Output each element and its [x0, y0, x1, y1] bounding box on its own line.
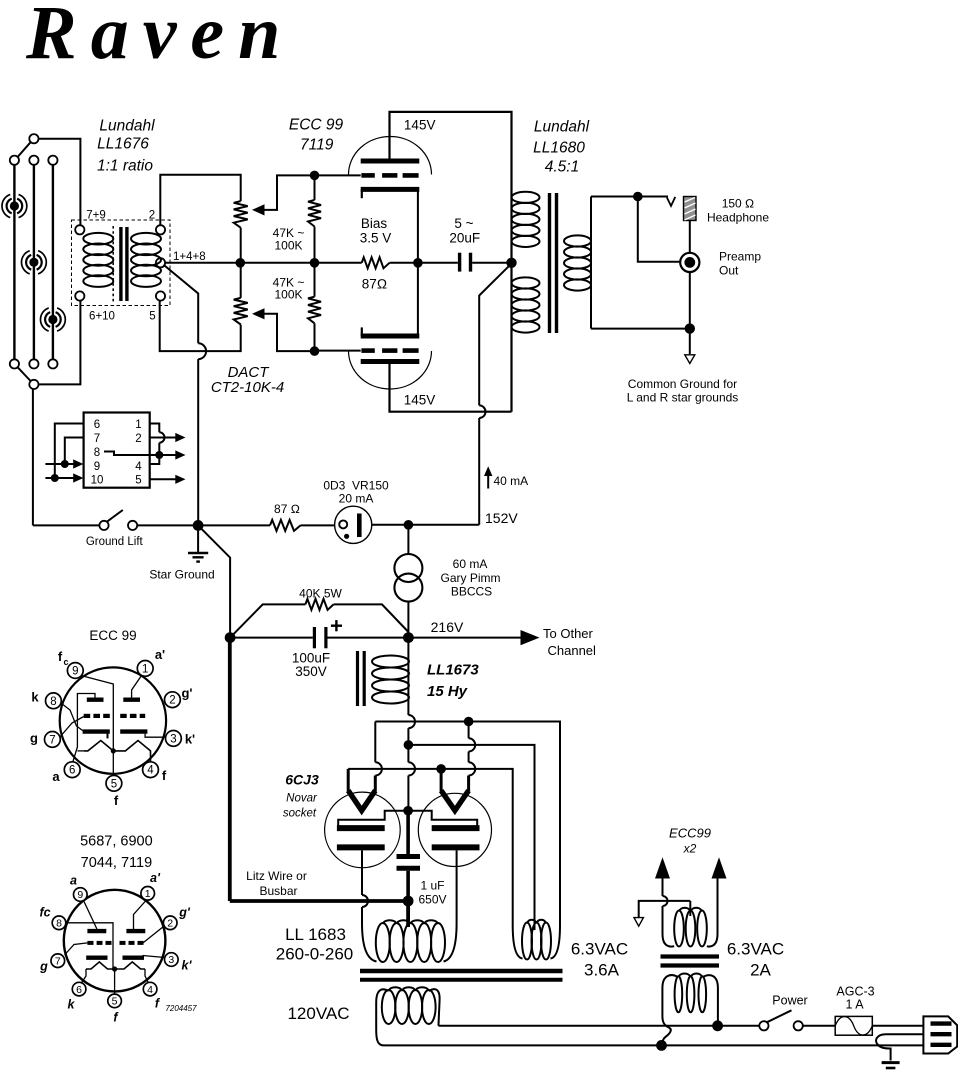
svg-text:Channel: Channel — [548, 643, 597, 658]
svg-text:Power: Power — [772, 994, 807, 1008]
svg-text:152V: 152V — [485, 510, 518, 526]
svg-text:1: 1 — [135, 419, 141, 431]
svg-text:120VAC: 120VAC — [287, 1004, 349, 1023]
svg-text:350V: 350V — [295, 664, 327, 679]
svg-text:8: 8 — [94, 447, 100, 459]
svg-text:2: 2 — [135, 433, 141, 445]
svg-text:6.3VAC: 6.3VAC — [727, 940, 784, 959]
svg-text:k: k — [68, 998, 76, 1012]
svg-text:f: f — [58, 649, 63, 664]
svg-text:60 mA: 60 mA — [453, 557, 488, 571]
svg-text:6+10: 6+10 — [89, 311, 115, 323]
svg-text:CT2-10K-4: CT2-10K-4 — [211, 379, 284, 396]
svg-text:20 mA: 20 mA — [339, 492, 374, 506]
svg-text:f: f — [162, 768, 167, 783]
svg-text:1:1 ratio: 1:1 ratio — [97, 158, 153, 175]
svg-text:5 ~: 5 ~ — [454, 216, 473, 231]
svg-text:0D3 VR150: 0D3 VR150 — [323, 479, 389, 493]
svg-text:7204457: 7204457 — [165, 1004, 197, 1013]
svg-text:BBCCS: BBCCS — [451, 585, 492, 599]
svg-text:Litz Wire or: Litz Wire or — [246, 869, 307, 883]
svg-text:LL1673: LL1673 — [427, 662, 479, 679]
svg-text:3.6A: 3.6A — [584, 961, 620, 980]
svg-text:1 uF: 1 uF — [421, 879, 445, 893]
svg-text:9: 9 — [94, 461, 100, 473]
svg-text:a: a — [70, 874, 77, 888]
svg-text:145V: 145V — [404, 118, 436, 133]
svg-text:40 mA: 40 mA — [494, 474, 529, 488]
svg-text:g': g' — [181, 686, 192, 701]
svg-text:4: 4 — [147, 984, 153, 996]
svg-text:7: 7 — [55, 955, 61, 967]
svg-text:a': a' — [150, 871, 161, 885]
svg-text:ECC 99: ECC 99 — [89, 628, 136, 643]
svg-text:10: 10 — [91, 475, 104, 487]
svg-text:k: k — [31, 690, 39, 705]
svg-text:2: 2 — [167, 918, 173, 930]
svg-text:Lundahl: Lundahl — [534, 119, 590, 136]
svg-text:4: 4 — [135, 461, 142, 473]
svg-text:a: a — [52, 769, 60, 784]
svg-text:k': k' — [185, 732, 195, 747]
svg-text:5: 5 — [135, 475, 141, 487]
svg-text:150 Ω: 150 Ω — [722, 197, 755, 211]
svg-text:k': k' — [182, 959, 193, 973]
svg-text:g: g — [30, 731, 38, 746]
svg-text:145V: 145V — [404, 393, 436, 408]
svg-text:9: 9 — [72, 666, 78, 678]
svg-text:Common Ground for: Common Ground for — [628, 377, 737, 391]
svg-text:87 Ω: 87 Ω — [274, 502, 300, 516]
svg-text:2: 2 — [149, 210, 155, 222]
svg-text:5687, 6900: 5687, 6900 — [80, 834, 153, 850]
svg-text:7: 7 — [94, 433, 100, 445]
svg-text:9: 9 — [77, 889, 83, 901]
svg-text:40K 5W: 40K 5W — [299, 587, 342, 601]
svg-text:6.3VAC: 6.3VAC — [571, 940, 628, 959]
svg-text:4.5:1: 4.5:1 — [545, 159, 579, 176]
svg-text:LL 1683: LL 1683 — [285, 925, 346, 944]
svg-text:x2: x2 — [683, 842, 697, 856]
svg-text:Out: Out — [719, 264, 739, 278]
svg-text:LL1680: LL1680 — [533, 140, 585, 157]
svg-text:6: 6 — [69, 765, 75, 777]
svg-text:6: 6 — [94, 419, 100, 431]
svg-text:1: 1 — [145, 888, 151, 900]
svg-text:2A: 2A — [750, 961, 771, 980]
svg-text:Preamp: Preamp — [719, 250, 761, 264]
svg-text:20uF: 20uF — [449, 231, 480, 246]
svg-text:8: 8 — [56, 918, 62, 930]
svg-text:1+4+8: 1+4+8 — [173, 251, 206, 263]
svg-text:AGC-3: AGC-3 — [836, 985, 874, 999]
svg-text:6CJ3: 6CJ3 — [285, 772, 319, 788]
svg-text:5: 5 — [111, 778, 117, 790]
svg-text:L and R star grounds: L and R star grounds — [627, 391, 739, 405]
svg-text:g': g' — [178, 906, 191, 920]
svg-text:c: c — [63, 657, 68, 667]
svg-text:Headphone: Headphone — [707, 211, 769, 225]
svg-text:260-0-260: 260-0-260 — [276, 945, 354, 964]
svg-text:100K: 100K — [274, 239, 302, 253]
svg-text:7: 7 — [49, 734, 55, 746]
svg-text:Bias: Bias — [361, 216, 388, 231]
svg-text:fc: fc — [39, 906, 50, 920]
svg-text:100K: 100K — [274, 288, 302, 302]
svg-text:socket: socket — [283, 808, 317, 820]
svg-text:Ground Lift: Ground Lift — [86, 536, 144, 548]
svg-text:7+9: 7+9 — [86, 210, 106, 222]
svg-text:To Other: To Other — [543, 626, 594, 641]
svg-text:LL1676: LL1676 — [97, 136, 149, 153]
svg-text:Busbar: Busbar — [259, 884, 297, 898]
svg-text:3: 3 — [168, 954, 174, 966]
svg-text:1: 1 — [142, 663, 148, 675]
svg-text:3: 3 — [170, 733, 176, 745]
svg-text:8: 8 — [50, 696, 56, 708]
svg-text:3.5 V: 3.5 V — [360, 231, 392, 246]
svg-text:Novar: Novar — [286, 793, 318, 805]
svg-text:87Ω: 87Ω — [362, 277, 387, 292]
svg-text:4: 4 — [147, 765, 154, 777]
svg-text:650V: 650V — [419, 893, 447, 907]
svg-text:5: 5 — [149, 311, 155, 323]
svg-text:a': a' — [155, 647, 165, 662]
svg-text:Raven: Raven — [25, 0, 294, 75]
svg-text:ECC99: ECC99 — [669, 826, 711, 841]
svg-text:Gary Pimm: Gary Pimm — [441, 571, 501, 585]
svg-text:ECC 99: ECC 99 — [289, 116, 344, 133]
svg-text:216V: 216V — [431, 619, 464, 635]
svg-text:1 A: 1 A — [845, 998, 864, 1012]
svg-text:2: 2 — [169, 695, 175, 707]
svg-text:Lundahl: Lundahl — [99, 118, 155, 135]
svg-text:Star Ground: Star Ground — [149, 568, 214, 582]
svg-text:7044, 7119: 7044, 7119 — [81, 855, 153, 871]
svg-text:6: 6 — [76, 984, 82, 996]
svg-text:7119: 7119 — [300, 137, 334, 154]
svg-text:5: 5 — [112, 996, 118, 1008]
svg-text:f: f — [114, 793, 119, 808]
svg-text:g: g — [39, 960, 48, 974]
svg-text:15 Hy: 15 Hy — [427, 683, 468, 700]
